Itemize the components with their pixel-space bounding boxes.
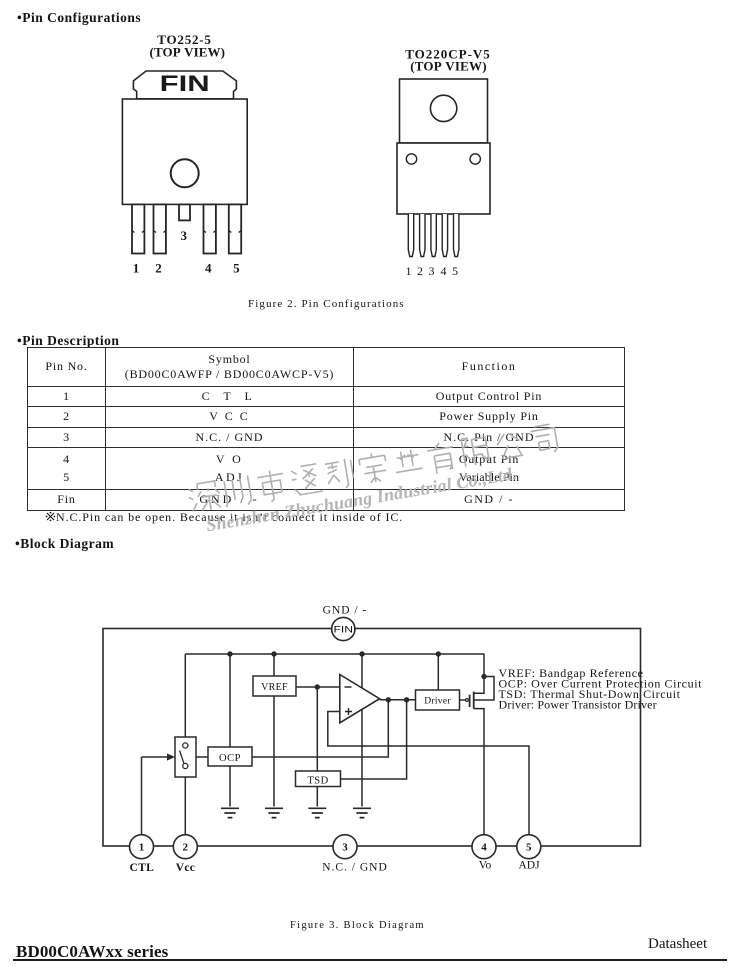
svg-text:ADJ: ADJ <box>518 860 540 872</box>
svg-text:(TOP VIEW): (TOP VIEW) <box>150 45 226 60</box>
svg-text:OCP: OCP <box>219 753 241 764</box>
svg-text:1: 1 <box>133 261 140 276</box>
svg-text:4: 4 <box>205 261 212 276</box>
svg-text:Vo: Vo <box>479 860 492 872</box>
svg-text:Driver: Power Transistor Drive: Driver: Power Transistor Driver <box>499 697 657 711</box>
svg-text:TSD: TSD <box>307 776 328 787</box>
svg-text:3: 3 <box>342 842 348 854</box>
svg-text:1: 1 <box>406 264 412 278</box>
svg-text:2: 2 <box>417 264 423 278</box>
svg-text:5: 5 <box>452 264 458 278</box>
svg-text:(TOP VIEW): (TOP VIEW) <box>410 59 487 74</box>
svg-text:FIN: FIN <box>160 71 210 96</box>
svg-text:FIN: FIN <box>334 624 354 635</box>
svg-text:2: 2 <box>183 842 189 854</box>
svg-text:3: 3 <box>181 228 188 243</box>
svg-text:CTL: CTL <box>130 862 155 874</box>
svg-text:VREF: VREF <box>261 682 288 693</box>
svg-text:2: 2 <box>155 261 162 276</box>
svg-text:4: 4 <box>481 842 487 854</box>
svg-text:1: 1 <box>139 842 145 854</box>
svg-text:Driver: Driver <box>424 697 451 707</box>
svg-text:5: 5 <box>233 261 240 276</box>
svg-text:GND / -: GND / - <box>323 605 368 617</box>
svg-text:3: 3 <box>429 264 435 278</box>
svg-text:5: 5 <box>526 842 532 854</box>
svg-text:Vcc: Vcc <box>176 862 195 874</box>
svg-text:N.C. / GND: N.C. / GND <box>322 862 388 874</box>
svg-text:4: 4 <box>441 264 447 278</box>
